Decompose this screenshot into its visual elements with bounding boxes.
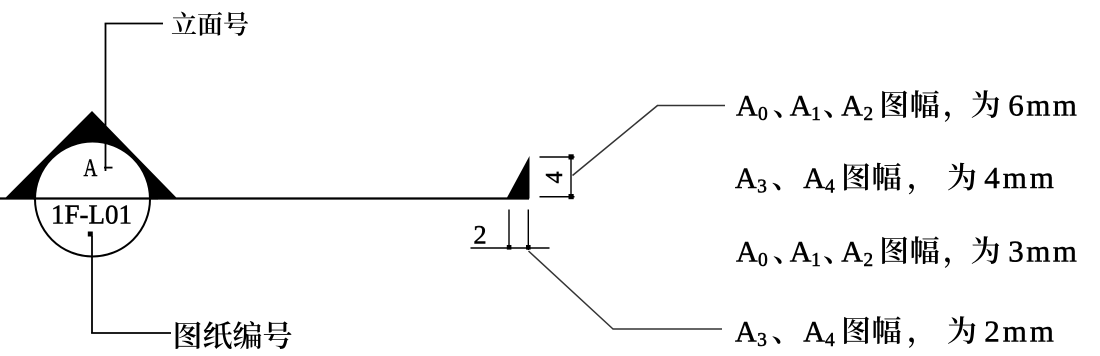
svg-text:A: A <box>736 236 758 269</box>
leader horizontal to line1 <box>657 105 725 107</box>
wire top callout vertical <box>105 24 107 172</box>
svg-text:3mm: 3mm <box>1008 234 1079 269</box>
svg-text:3: 3 <box>757 177 767 198</box>
svg-text:1: 1 <box>811 250 821 271</box>
svg-text:A: A <box>735 162 757 195</box>
wire bottom callout vertical <box>91 236 93 333</box>
svg-text:6mm: 6mm <box>1008 88 1079 123</box>
wire top callout horizontal <box>105 23 163 25</box>
svg-text:A: A <box>841 236 863 269</box>
svg-text:A: A <box>84 153 98 181</box>
dim 2 left tick <box>507 245 512 250</box>
svg-text:4mm: 4mm <box>984 160 1057 195</box>
label 立面号 <box>172 12 248 36</box>
elevation symbol circle <box>35 142 150 257</box>
dim 4 bottom dot <box>569 194 574 199</box>
dim 4 top extension line <box>540 156 575 158</box>
label A elevation letter <box>84 153 98 181</box>
leader diagonal to line4 <box>529 251 614 329</box>
text line 4: A3 A4 2mm <box>735 314 1057 352</box>
dim 2 left extension line <box>508 210 510 248</box>
text line 1: A0 A1 A2 6mm <box>736 88 1079 126</box>
svg-text:A: A <box>803 316 825 349</box>
dim 4 bottom extension line <box>540 196 575 198</box>
text line 2: A3 A4 4mm <box>735 160 1057 198</box>
svg-text:4: 4 <box>542 172 568 184</box>
dim 4 vertical dimension line <box>570 157 572 197</box>
dot on circle bottom pointer <box>88 232 93 237</box>
svg-text:3: 3 <box>757 330 767 351</box>
elevation symbol filled triangle <box>6 111 177 198</box>
dim 2 baseline <box>471 247 550 249</box>
wire bottom callout horizontal <box>91 332 171 334</box>
wire main horizontal line <box>0 197 529 199</box>
svg-text:0: 0 <box>758 250 768 271</box>
svg-text:1F-L01: 1F-L01 <box>51 200 132 230</box>
svg-text:2: 2 <box>863 104 873 125</box>
svg-text:1: 1 <box>811 104 821 125</box>
dim 2 right extension line <box>527 210 529 251</box>
dim 4 top dot <box>569 154 574 159</box>
dim 2 right tick <box>526 245 531 250</box>
text line 3: A0 A1 A2 3mm <box>736 234 1079 272</box>
svg-text:A: A <box>735 316 757 349</box>
wire line through circle <box>33 197 158 199</box>
svg-text:A: A <box>803 162 825 195</box>
small filled triangle detail <box>507 156 530 199</box>
label 图纸编号 <box>176 321 292 349</box>
leader diagonal to line1 <box>573 106 658 176</box>
svg-text:0: 0 <box>758 104 768 125</box>
svg-text:4: 4 <box>825 177 835 198</box>
svg-text:4: 4 <box>825 330 835 351</box>
svg-text:2mm: 2mm <box>984 314 1057 349</box>
svg-text:A: A <box>790 236 812 269</box>
svg-text:2: 2 <box>473 220 486 250</box>
svg-text:A: A <box>790 90 812 123</box>
svg-text:2: 2 <box>863 250 873 271</box>
svg-text:A: A <box>736 90 758 123</box>
svg-text:A: A <box>841 90 863 123</box>
leader horizontal to line4 <box>613 328 723 330</box>
tick at A pointer end <box>104 167 113 169</box>
